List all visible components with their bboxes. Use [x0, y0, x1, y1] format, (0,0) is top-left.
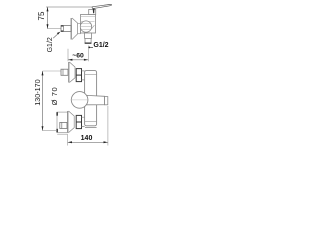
cartridge cap [89, 10, 96, 15]
upper union nut [76, 69, 81, 82]
lower union nut [76, 115, 81, 128]
body upper block [81, 15, 96, 34]
arrow up 75 [47, 7, 49, 11]
lever handle side view [92, 5, 112, 9]
extension line upper connection [43, 70, 61, 72]
lower nipple [60, 122, 67, 128]
outlet fitting [85, 33, 92, 38]
arrow down 75 [47, 24, 49, 28]
svg-text:140: 140 [81, 135, 93, 142]
upper escutcheon [68, 62, 71, 83]
handle stem [93, 7, 95, 13]
svg-text:G1/2: G1/2 [93, 42, 108, 49]
dome circle front view [71, 92, 88, 109]
dimension line ~60 [68, 59, 88, 61]
svg-text:Ø 70: Ø 70 [50, 87, 59, 106]
diagonal chamfer [90, 25, 95, 31]
centre axis line inlet [48, 28, 62, 30]
svg-text:G1/2: G1/2 [47, 37, 54, 52]
handle front view [87, 95, 105, 104]
extension lines 140 [57, 134, 67, 145]
body front view [85, 71, 97, 126]
valve housing circle [80, 21, 91, 32]
svg-text:130-170: 130-170 [33, 79, 42, 105]
svg-text:~60: ~60 [72, 53, 84, 60]
leader G1/2 [53, 33, 58, 38]
upper nipple [61, 69, 68, 75]
escutcheon side view [71, 18, 72, 40]
outlet dark end [85, 43, 92, 44]
dimension line 130-170 [42, 71, 44, 131]
lower eccentric union box [57, 112, 68, 132]
dimension line 140 [68, 141, 108, 143]
extension line lower connection [43, 130, 57, 132]
union nut side view [78, 24, 81, 34]
extension lines ~60 [68, 46, 88, 62]
chords inside circle [80, 24, 91, 30]
wall nipple side view [61, 26, 71, 32]
svg-text:75: 75 [37, 11, 46, 20]
extension line top of handle [46, 6, 93, 8]
dimension line 75 [47, 7, 49, 29]
lower escutcheon [67, 111, 70, 133]
